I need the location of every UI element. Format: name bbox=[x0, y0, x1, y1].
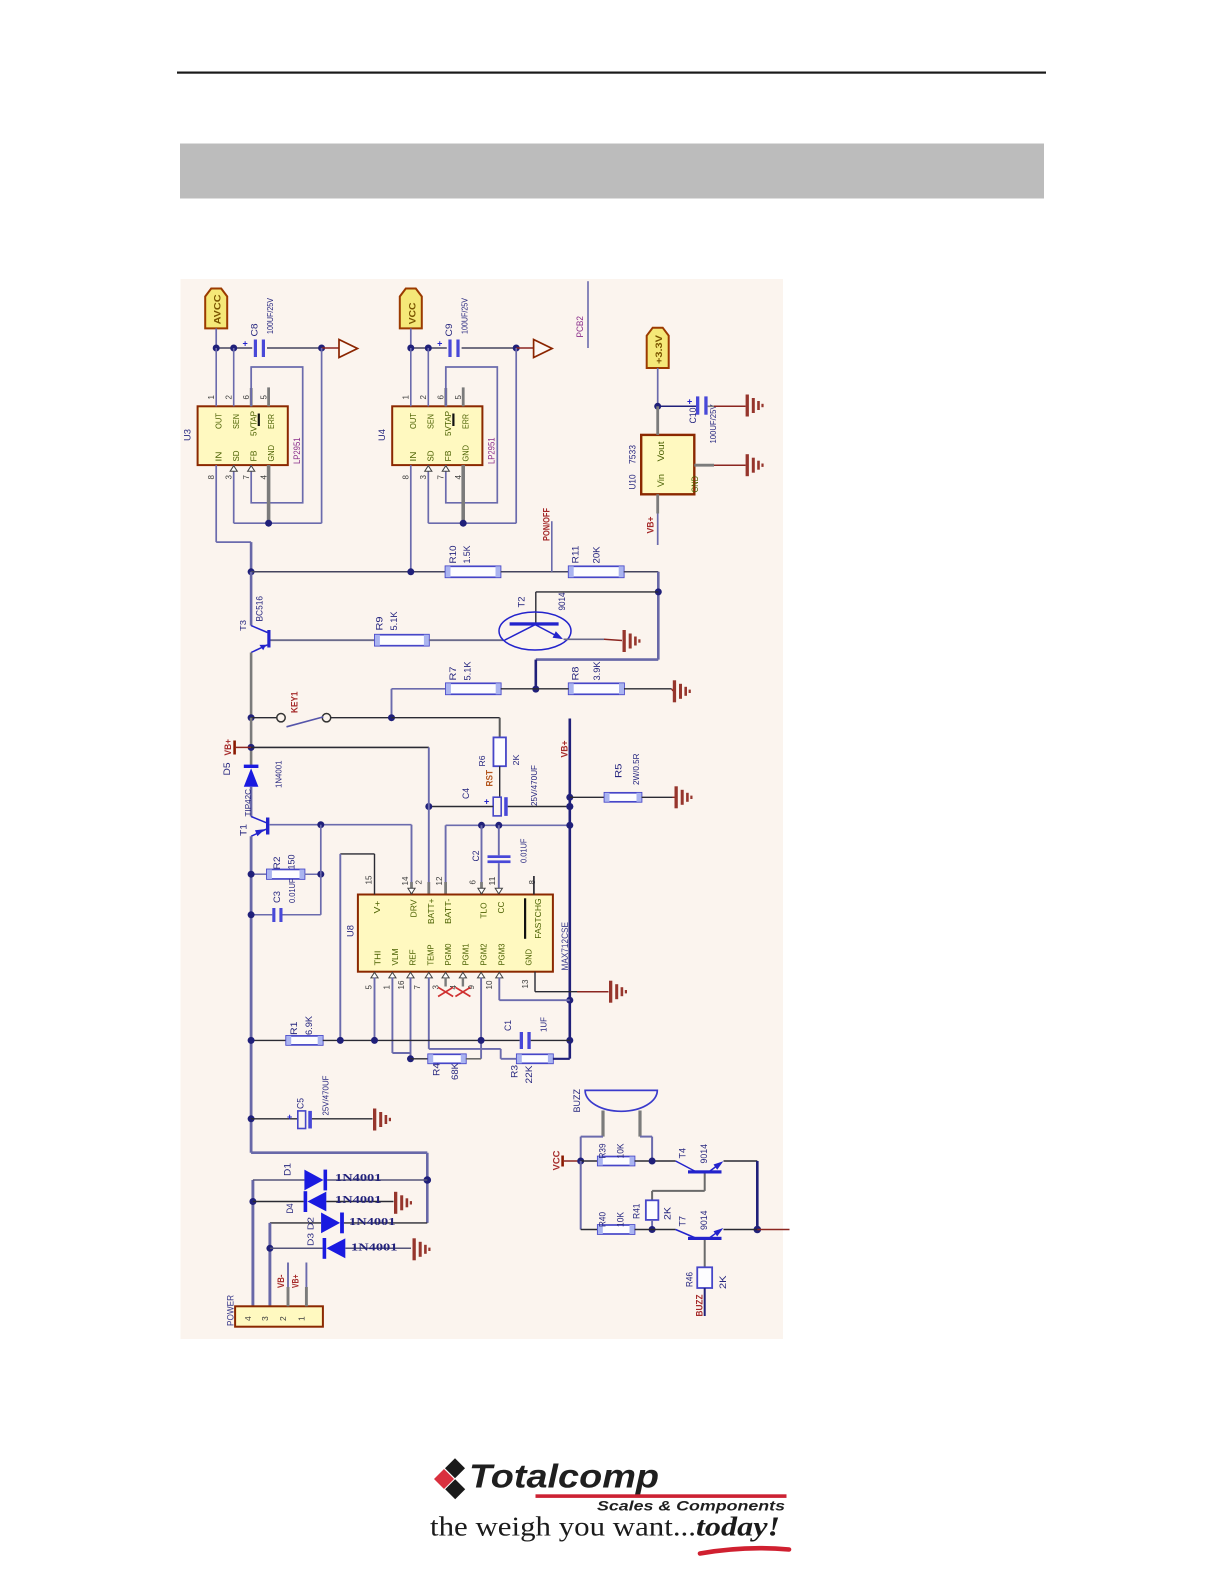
svg-text:REF: REF bbox=[408, 950, 418, 966]
svg-text:R1: R1 bbox=[289, 1022, 299, 1036]
pin input arrows bbox=[425, 466, 432, 472]
ground (analog, hollow arrow) bbox=[322, 347, 339, 349]
feedback loop wire 5VTAP-FB bbox=[446, 367, 498, 503]
svg-text:Vin: Vin bbox=[656, 474, 666, 487]
pin 4 GND wire bbox=[267, 465, 271, 523]
wire pin4 column bbox=[251, 1180, 254, 1306]
svg-text:LP2951: LP2951 bbox=[487, 438, 497, 464]
svg-text:PGM1: PGM1 bbox=[461, 943, 471, 965]
svg-text:TIP42C: TIP42C bbox=[243, 789, 253, 817]
svg-text:R39: R39 bbox=[598, 1144, 608, 1159]
ground bbox=[394, 1192, 397, 1214]
svg-text:CC: CC bbox=[496, 902, 506, 914]
svg-text:TLO: TLO bbox=[479, 902, 489, 918]
svg-text:T7: T7 bbox=[678, 1216, 688, 1227]
svg-text:R9: R9 bbox=[375, 617, 385, 631]
svg-text:U10: U10 bbox=[628, 475, 638, 490]
rail bbox=[250, 787, 253, 817]
svg-text:IN: IN bbox=[408, 452, 418, 462]
logo Totalcomp diamonds bbox=[445, 1458, 465, 1478]
svg-text:R40: R40 bbox=[598, 1212, 608, 1227]
wire rail to BATT+ column bbox=[251, 746, 429, 748]
svg-text:1N4001: 1N4001 bbox=[274, 760, 284, 788]
page header rule bbox=[177, 72, 1046, 74]
ground bbox=[609, 981, 612, 1003]
svg-text:OUT: OUT bbox=[408, 413, 418, 429]
svg-text:4: 4 bbox=[259, 475, 268, 480]
feedback loop wire 5VTAP-FB bbox=[251, 367, 303, 503]
svg-text:VB+: VB+ bbox=[223, 739, 233, 756]
pins bbox=[287, 1263, 289, 1288]
resistor R6 2K bbox=[493, 737, 506, 766]
svg-text:SD: SD bbox=[231, 451, 241, 462]
svg-text:Vout: Vout bbox=[656, 441, 666, 462]
pin 16 REF wire bbox=[410, 978, 412, 1059]
diode D4 1N4001 bbox=[253, 1201, 304, 1203]
svg-text:6.9K: 6.9K bbox=[304, 1016, 314, 1035]
svg-text:VB+: VB+ bbox=[560, 741, 570, 758]
pin 7 TEMP wire bbox=[428, 978, 430, 1049]
svg-text:OUT: OUT bbox=[214, 413, 224, 429]
svg-text:PON/OFF: PON/OFF bbox=[542, 508, 552, 541]
svg-text:U8: U8 bbox=[346, 925, 356, 937]
svg-text:0.01UF: 0.01UF bbox=[519, 839, 529, 864]
pin 8 IN wire bbox=[215, 465, 217, 542]
svg-text:VB+: VB+ bbox=[646, 517, 656, 534]
svg-text:C8: C8 bbox=[250, 324, 260, 337]
svg-text:T3: T3 bbox=[238, 620, 248, 631]
power flag AVCC bbox=[205, 289, 227, 329]
svg-text:C10: C10 bbox=[688, 408, 698, 424]
wire bbox=[708, 405, 714, 407]
capacitor C3 0.01UF bbox=[251, 914, 272, 916]
svg-text:R3: R3 bbox=[510, 1065, 520, 1078]
svg-text:4: 4 bbox=[454, 475, 463, 480]
capacitor C5 25V/470UF bbox=[248, 1115, 255, 1122]
pin 3 SD wire bbox=[233, 465, 235, 523]
svg-text:C2: C2 bbox=[471, 851, 481, 862]
resistor R4 68K bbox=[411, 1058, 429, 1060]
buzzer BUZZ speaker bbox=[585, 1090, 657, 1111]
svg-text:SD: SD bbox=[426, 451, 436, 462]
svg-text:2W/0.5R: 2W/0.5R bbox=[631, 754, 641, 786]
svg-text:4: 4 bbox=[243, 1316, 253, 1321]
svg-text:GND: GND bbox=[461, 445, 471, 462]
gray title bar bbox=[180, 144, 1044, 199]
svg-text:8: 8 bbox=[402, 475, 411, 480]
svg-text:20K: 20K bbox=[592, 547, 602, 564]
capacitor C9 bbox=[448, 340, 451, 358]
svg-text:14: 14 bbox=[401, 876, 410, 886]
logo red swoosh bbox=[700, 1548, 789, 1553]
svg-text:THI: THI bbox=[373, 951, 383, 966]
wire KEY node to R7 bbox=[391, 689, 393, 718]
wire rail elbow to diode column bbox=[251, 1151, 427, 1154]
svg-text:R2: R2 bbox=[272, 857, 282, 870]
svg-text:KEY1: KEY1 bbox=[290, 692, 300, 714]
capacitor C8 bbox=[254, 340, 257, 358]
pin 4 GND wire bbox=[461, 465, 465, 523]
pin 8 stub bbox=[533, 876, 535, 895]
regulator U3 LP2951 bbox=[198, 406, 288, 465]
rail below T1 bbox=[250, 836, 253, 1152]
svg-text:3: 3 bbox=[419, 475, 428, 480]
svg-text:5: 5 bbox=[454, 395, 463, 400]
rail to T3 bbox=[250, 572, 253, 626]
wire bbox=[410, 328, 412, 348]
pin Vout bbox=[656, 406, 659, 435]
ground bbox=[714, 405, 746, 407]
svg-text:2K: 2K bbox=[663, 1207, 673, 1220]
svg-text:BATT+: BATT+ bbox=[426, 898, 436, 924]
svg-text:BUZZ: BUZZ bbox=[572, 1089, 582, 1113]
wire bus to bottom node bbox=[515, 348, 517, 523]
base wire to R9 bbox=[271, 639, 375, 641]
svg-text:RST: RST bbox=[485, 770, 495, 787]
svg-text:1UF: 1UF bbox=[539, 1017, 549, 1032]
svg-text:BUZZ: BUZZ bbox=[695, 1294, 705, 1316]
svg-text:+: + bbox=[243, 339, 248, 349]
pin 5 ERR stub bbox=[462, 387, 465, 406]
capacitor C4 electrolytic bbox=[493, 797, 501, 816]
transistor T4 9014 bbox=[688, 1170, 722, 1173]
node junctions bbox=[213, 345, 220, 352]
svg-text:LP2951: LP2951 bbox=[292, 438, 302, 465]
svg-text:PGM2: PGM2 bbox=[479, 943, 489, 965]
wire VB+ row to BATT+ column bbox=[251, 746, 429, 748]
pin 9 PGM2 wire bbox=[480, 978, 482, 1059]
svg-text:R41: R41 bbox=[632, 1204, 642, 1220]
capacitor C10 bbox=[696, 396, 699, 414]
svg-text:10K: 10K bbox=[616, 1144, 626, 1159]
wire U3.IN elbow to rail bbox=[216, 541, 251, 543]
svg-text:10K: 10K bbox=[616, 1212, 626, 1227]
power VCC bbox=[561, 1156, 564, 1167]
diode D3 1N4001 bbox=[270, 1247, 323, 1249]
svg-text:150: 150 bbox=[287, 855, 297, 870]
svg-text:R11: R11 bbox=[571, 546, 581, 564]
svg-text:100UF/25V: 100UF/25V bbox=[708, 404, 718, 443]
pin 6 stub bbox=[250, 367, 252, 388]
svg-text:DRV: DRV bbox=[409, 899, 419, 917]
pin stubs top bbox=[408, 888, 415, 894]
power bar VB+ bbox=[233, 741, 236, 755]
svg-text:8: 8 bbox=[207, 475, 216, 480]
svg-text:0.01UF: 0.01UF bbox=[287, 879, 297, 904]
net VB+ rail bbox=[568, 719, 571, 1059]
capacitor C2 0.01UF bbox=[498, 825, 500, 855]
pin Vin bbox=[656, 494, 659, 513]
svg-text:VB-: VB- bbox=[276, 1274, 286, 1288]
rail row to R10/R11 bbox=[251, 571, 445, 573]
transistor T7 9014 bbox=[688, 1237, 722, 1240]
svg-text:5VTAP: 5VTAP bbox=[249, 411, 259, 436]
svg-text:5VTAP: 5VTAP bbox=[443, 411, 453, 436]
svg-text:10: 10 bbox=[485, 980, 494, 990]
wire T1 base to DRV bbox=[270, 824, 412, 826]
resistor R8 3.9K bbox=[569, 683, 624, 694]
svg-text:13: 13 bbox=[521, 979, 530, 989]
ground bbox=[413, 1238, 416, 1260]
capacitor C1 1UF bbox=[520, 1032, 523, 1049]
wire output bus bbox=[216, 347, 252, 349]
resistor R41 2K bbox=[646, 1200, 659, 1220]
svg-text:R6: R6 bbox=[477, 755, 487, 766]
svg-text:2: 2 bbox=[278, 1316, 288, 1321]
wire T2 emitter to ground bbox=[564, 638, 605, 640]
charger IC U8 MAX712CSE bbox=[358, 895, 553, 972]
speaker legs bbox=[601, 1111, 604, 1137]
svg-text:+: + bbox=[287, 1112, 292, 1122]
svg-text:ERR: ERR bbox=[266, 414, 276, 429]
wire BATT- row to VB+ rail bbox=[446, 824, 570, 826]
resistor R2 150 bbox=[251, 873, 267, 875]
wire bus to bottom node bbox=[321, 348, 323, 523]
diode D2 1N4001 bbox=[270, 1222, 321, 1224]
resistor R11 20K bbox=[569, 566, 624, 577]
wire T7 base bbox=[704, 1240, 706, 1267]
svg-text:Totalcomp: Totalcomp bbox=[469, 1458, 659, 1495]
node junctions bbox=[407, 345, 414, 352]
svg-text:5: 5 bbox=[259, 395, 268, 400]
svg-text:GND: GND bbox=[266, 445, 276, 462]
svg-text:C1: C1 bbox=[503, 1020, 513, 1031]
svg-text:1N4001: 1N4001 bbox=[335, 1172, 382, 1184]
svg-text:PGM0: PGM0 bbox=[443, 943, 453, 965]
wire pin3 column bbox=[268, 1223, 271, 1306]
power flag VCC bbox=[400, 289, 422, 329]
svg-text:ERR: ERR bbox=[461, 414, 471, 429]
svg-text:POWER: POWER bbox=[226, 1295, 236, 1326]
pin 13 GND wire bbox=[534, 972, 536, 992]
node T4/T7 bbox=[754, 1226, 762, 1234]
svg-text:25V/470UF: 25V/470UF bbox=[529, 765, 539, 806]
regulator U10 7533 bbox=[641, 435, 694, 494]
wire TLO column bbox=[481, 825, 483, 882]
regulator U4 LP2951 bbox=[392, 406, 482, 465]
svg-text:SEN: SEN bbox=[426, 414, 436, 429]
wire T4 emitter to T7 collector node bbox=[724, 1160, 758, 1162]
pin 5 ERR stub bbox=[267, 387, 270, 406]
svg-text:R4: R4 bbox=[432, 1063, 442, 1076]
wire switch row down to R6 bbox=[499, 718, 501, 738]
svg-text:D3 D2: D3 D2 bbox=[306, 1217, 316, 1246]
svg-text:R46: R46 bbox=[685, 1272, 695, 1287]
svg-text:C3: C3 bbox=[272, 891, 282, 903]
svg-text:the weigh you want...today!: the weigh you want...today! bbox=[430, 1511, 780, 1542]
rail to VB+ node bbox=[250, 718, 253, 765]
resistor R7 5.1K bbox=[446, 683, 501, 694]
bottom wire SD-GND node bbox=[428, 522, 516, 524]
svg-text:1: 1 bbox=[207, 395, 216, 400]
svg-text:C5: C5 bbox=[296, 1098, 306, 1109]
svg-text:3: 3 bbox=[260, 1316, 270, 1321]
net PON/OFF stub bbox=[551, 521, 553, 572]
resistor R5 2W/0.5R bbox=[570, 796, 605, 798]
svg-text:1: 1 bbox=[383, 985, 392, 990]
svg-text:VLM: VLM bbox=[390, 949, 400, 966]
svg-text:7533: 7533 bbox=[628, 445, 638, 464]
svg-text:1: 1 bbox=[402, 395, 411, 400]
pin 1 OUT wire bbox=[410, 348, 412, 406]
diode D5 1N4001 bbox=[244, 765, 259, 768]
pin 2 SEN wire bbox=[233, 348, 235, 406]
transistor T1 TIP42C bbox=[266, 818, 269, 835]
wire T4 base bbox=[704, 1174, 706, 1191]
svg-text:2K: 2K bbox=[718, 1276, 728, 1290]
pin 10 PGM3 wire bbox=[498, 978, 500, 1001]
svg-text:7: 7 bbox=[242, 475, 251, 480]
svg-text:+: + bbox=[687, 397, 692, 407]
pin 3 SD wire bbox=[427, 465, 429, 523]
resistor R9 5.1K bbox=[375, 635, 429, 646]
svg-text:16: 16 bbox=[397, 980, 406, 990]
resistor R39 10K bbox=[577, 1158, 584, 1165]
wire T2 collector bbox=[536, 591, 659, 593]
node U4.IN / DRV bbox=[407, 568, 414, 575]
svg-text:VCC: VCC bbox=[407, 302, 417, 325]
svg-text:1: 1 bbox=[296, 1316, 306, 1321]
svg-text:8: 8 bbox=[528, 880, 537, 885]
svg-text:15: 15 bbox=[365, 875, 374, 885]
svg-text:1N4001: 1N4001 bbox=[349, 1216, 396, 1228]
svg-text:2: 2 bbox=[419, 395, 428, 400]
pin GND bbox=[694, 464, 714, 467]
svg-text:IN: IN bbox=[214, 452, 224, 462]
svg-text:5.1K: 5.1K bbox=[389, 612, 399, 631]
svg-text:9014: 9014 bbox=[557, 593, 567, 611]
resistor R3 22K bbox=[517, 1054, 553, 1063]
svg-text:U4: U4 bbox=[377, 429, 387, 441]
svg-text:7: 7 bbox=[437, 475, 446, 480]
svg-text:D1: D1 bbox=[283, 1163, 293, 1176]
svg-text:+: + bbox=[437, 339, 442, 349]
svg-text:+: + bbox=[484, 797, 489, 807]
wire bbox=[658, 405, 696, 407]
svg-text:D5: D5 bbox=[222, 763, 232, 776]
wire output bus bbox=[411, 347, 447, 349]
svg-text:2: 2 bbox=[225, 395, 234, 400]
svg-text:FB: FB bbox=[443, 450, 453, 461]
svg-text:9014: 9014 bbox=[699, 1144, 709, 1164]
svg-text:BC516: BC516 bbox=[255, 596, 265, 622]
svg-text:SEN: SEN bbox=[231, 414, 241, 429]
svg-text:T1: T1 bbox=[239, 824, 249, 836]
pin 1 VLM wire bbox=[391, 978, 393, 1054]
net PCB2 wire stub bbox=[587, 281, 589, 348]
ground bbox=[373, 1109, 376, 1131]
svg-text:22K: 22K bbox=[524, 1066, 534, 1084]
svg-text:2: 2 bbox=[415, 880, 424, 885]
svg-text:TEMP: TEMP bbox=[426, 944, 436, 965]
net stub bbox=[757, 1229, 789, 1231]
svg-text:7: 7 bbox=[413, 985, 422, 990]
svg-text:T2: T2 bbox=[517, 597, 527, 608]
ground (analog, hollow arrow) bbox=[516, 347, 533, 349]
pin 6 stub bbox=[445, 367, 447, 388]
svg-text:FASTCHG: FASTCHG bbox=[533, 898, 543, 939]
svg-text:+3.3V: +3.3V bbox=[654, 335, 664, 364]
resistor R10 1.5K bbox=[446, 566, 501, 577]
svg-text:R7: R7 bbox=[448, 667, 458, 681]
svg-text:GND: GND bbox=[524, 949, 534, 966]
pin 15 V+ loop bbox=[374, 854, 376, 895]
svg-text:PGM3: PGM3 bbox=[497, 943, 507, 965]
svg-text:6: 6 bbox=[437, 395, 446, 400]
svg-text:FB: FB bbox=[249, 450, 259, 461]
svg-text:VB+: VB+ bbox=[291, 1275, 301, 1289]
ground bbox=[623, 630, 626, 652]
svg-text:C4: C4 bbox=[461, 788, 471, 799]
svg-text:T4: T4 bbox=[678, 1148, 688, 1159]
svg-text:5.1K: 5.1K bbox=[463, 662, 473, 681]
pin 5 THI wire bbox=[374, 978, 376, 1041]
svg-text:VCC: VCC bbox=[552, 1150, 562, 1171]
svg-text:100UF/25V: 100UF/25V bbox=[460, 298, 470, 334]
svg-text:11: 11 bbox=[488, 876, 497, 886]
pin 2 SEN wire bbox=[427, 348, 429, 406]
svg-text:5: 5 bbox=[365, 985, 374, 990]
pin arrows bottom bbox=[371, 972, 378, 978]
diode D1 1N4001 bbox=[253, 1179, 305, 1181]
wire DRV column bbox=[411, 825, 413, 882]
svg-text:R5: R5 bbox=[614, 764, 624, 779]
wire VCC rail down bbox=[580, 1161, 582, 1230]
svg-text:R10: R10 bbox=[448, 546, 458, 564]
svg-text:GND: GND bbox=[690, 476, 700, 493]
svg-text:2K: 2K bbox=[511, 754, 521, 765]
wire bbox=[657, 368, 659, 406]
ground bbox=[672, 689, 674, 691]
svg-text:BATT-: BATT- bbox=[443, 898, 453, 924]
wire bbox=[215, 328, 217, 348]
resistor R40 10K bbox=[581, 1229, 598, 1231]
svg-text:1N4001: 1N4001 bbox=[351, 1241, 398, 1253]
svg-text:6: 6 bbox=[242, 395, 251, 400]
pin 8 IN wire bbox=[410, 465, 412, 572]
ground bbox=[714, 464, 746, 466]
svg-text:3: 3 bbox=[225, 475, 234, 480]
no-connect X pins 4 and 9 bbox=[438, 987, 453, 996]
wire bbox=[331, 717, 392, 719]
svg-text:100UF/25V: 100UF/25V bbox=[265, 298, 275, 334]
pin input arrows bbox=[230, 466, 237, 472]
svg-text:V+: V+ bbox=[372, 900, 382, 913]
wire R11 to T2 collector loop bbox=[657, 572, 660, 660]
transistor T2 9014 bbox=[499, 612, 571, 650]
connector POWER bbox=[235, 1306, 323, 1326]
resistor R46 2K bbox=[697, 1267, 712, 1288]
svg-text:D4: D4 bbox=[285, 1204, 295, 1214]
pin 1 OUT wire bbox=[215, 348, 217, 406]
rail T3 to switch bbox=[250, 653, 253, 718]
svg-text:C9: C9 bbox=[444, 324, 454, 337]
ground bbox=[673, 796, 675, 798]
resistor R1 6.9K bbox=[286, 1036, 323, 1045]
svg-text:3.9K: 3.9K bbox=[592, 662, 602, 681]
svg-text:1.5K: 1.5K bbox=[462, 546, 472, 564]
svg-text:PCB2: PCB2 bbox=[575, 316, 585, 338]
svg-text:12: 12 bbox=[435, 876, 444, 886]
wire BATT- column bbox=[445, 825, 447, 882]
svg-text:R8: R8 bbox=[571, 667, 581, 681]
svg-text:9014: 9014 bbox=[699, 1211, 709, 1231]
svg-text:MAX712CSE: MAX712CSE bbox=[560, 922, 570, 971]
wire R1 row bbox=[251, 1039, 286, 1041]
logo red underline bbox=[536, 1494, 787, 1498]
schematic image background bbox=[181, 279, 784, 1339]
bottom wire SD-GND node bbox=[234, 522, 322, 524]
